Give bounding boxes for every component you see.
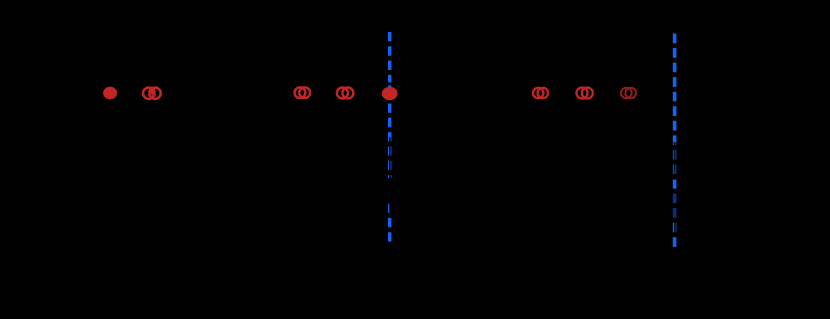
black displacement-curve ink crossing W1 (splits dashes): [387, 137, 392, 214]
molecule M1 (displaced, filled dot): [103, 87, 117, 100]
molecule M2 (circle pair with displaced dot): [143, 87, 161, 99]
molecule M4 (overlapping circle pair): [337, 88, 354, 99]
molecule M3 (overlapping circle pair): [295, 87, 311, 98]
black displacement-curve ink crossing W2 (splits and dims dashes): [672, 142, 677, 234]
molecule M7 (overlapping circle pair): [577, 88, 593, 99]
molecule cluster M5 (compression blob on W1): [382, 87, 398, 101]
molecule M6 (overlapping circle pair): [533, 88, 548, 98]
wavefront dashed line W2 (compression plane, right): [673, 34, 677, 248]
wire: short dash stub above compression blob on W1: [388, 85, 391, 89]
wavefront dashed line W1 (compression plane, left): [388, 32, 391, 245]
molecule M8 (overlapping circle pair, faint): [621, 88, 636, 99]
